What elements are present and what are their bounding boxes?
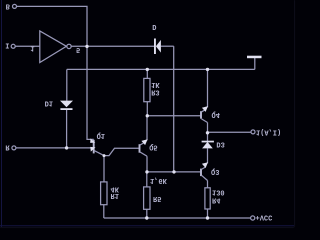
svg-text:D1: D1 [45,98,53,106]
svg-text:Q3: Q3 [211,167,219,175]
svg-text:D3: D3 [216,140,224,148]
svg-text:+VCC: +VCC [256,213,273,221]
svg-text:R4: R4 [212,196,220,204]
svg-text:1(A,I): 1(A,I) [256,127,281,135]
svg-text:1,6K: 1,6K [150,176,168,184]
svg-text:Q4: Q4 [212,110,220,118]
svg-text:5: 5 [76,45,80,53]
svg-text:1K: 1K [151,80,160,88]
svg-text:R1: R1 [111,191,119,199]
svg-text:R5: R5 [153,194,161,202]
svg-text:Q5: Q5 [149,143,157,151]
svg-text:Q1: Q1 [97,131,105,139]
svg-text:D: D [152,22,156,30]
svg-text:1: 1 [30,44,34,52]
svg-text:I: I [5,40,9,48]
svg-text:130: 130 [212,187,225,195]
svg-text:R3: R3 [151,88,159,96]
